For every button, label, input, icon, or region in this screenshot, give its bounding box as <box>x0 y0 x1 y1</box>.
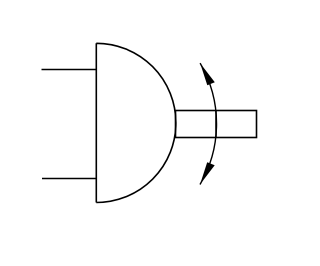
rotation arrow head (top) <box>200 63 215 85</box>
output shaft rectangle <box>176 111 257 138</box>
lower port line <box>42 178 96 180</box>
shaft rectangle divider <box>215 111 217 138</box>
rotation arrow head (bottom) <box>200 162 215 184</box>
semi-rotary actuator body (half-circle) <box>96 43 176 202</box>
rotation arrow arc <box>200 63 217 184</box>
upper port line <box>42 69 97 71</box>
